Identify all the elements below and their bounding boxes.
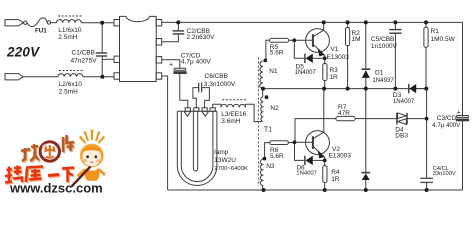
svg-text:N2: N2 bbox=[270, 105, 279, 112]
svg-text:R4: R4 bbox=[331, 169, 340, 176]
svg-text:E13003: E13003 bbox=[327, 54, 350, 61]
svg-text:3.6mH: 3.6mH bbox=[221, 118, 240, 125]
svg-text:13W2U: 13W2U bbox=[214, 157, 236, 164]
svg-text:1R: 1R bbox=[331, 176, 340, 183]
svg-text:1R: 1R bbox=[329, 74, 338, 81]
svg-text:1N4007: 1N4007 bbox=[393, 98, 415, 105]
svg-text:220V: 220V bbox=[6, 45, 40, 60]
svg-text:T1: T1 bbox=[264, 127, 272, 134]
svg-text:5.6R: 5.6R bbox=[270, 153, 284, 160]
svg-text:1M: 1M bbox=[352, 36, 361, 43]
svg-text:www.dzsc.com: www.dzsc.com bbox=[9, 181, 103, 196]
svg-text:33n100V: 33n100V bbox=[433, 171, 456, 177]
svg-text:5.6R: 5.6R bbox=[270, 50, 284, 57]
svg-text:L1/6x10: L1/6x10 bbox=[58, 27, 82, 34]
svg-text:3.3n1000V: 3.3n1000V bbox=[204, 81, 236, 88]
svg-text:47n275V: 47n275V bbox=[71, 57, 98, 64]
svg-text:R1: R1 bbox=[431, 28, 440, 35]
svg-text:2.5mH: 2.5mH bbox=[58, 34, 77, 41]
svg-text:DB3: DB3 bbox=[395, 132, 408, 139]
svg-text:FU1: FU1 bbox=[35, 28, 47, 35]
svg-text:L2/6x10: L2/6x10 bbox=[59, 81, 83, 88]
svg-text:4.7μ 400V: 4.7μ 400V bbox=[181, 59, 211, 66]
svg-text:E13003: E13003 bbox=[329, 153, 352, 160]
svg-text:1M0.5W: 1M0.5W bbox=[431, 36, 456, 43]
svg-text:+: + bbox=[457, 110, 461, 117]
svg-text:2.2n630V: 2.2n630V bbox=[187, 34, 215, 41]
svg-text:C6/CBB: C6/CBB bbox=[205, 73, 228, 80]
svg-text:1N4937: 1N4937 bbox=[372, 77, 394, 84]
svg-text:2.5mH: 2.5mH bbox=[59, 88, 78, 95]
svg-text:V1: V1 bbox=[330, 46, 338, 53]
svg-text:4.7μ 400V: 4.7μ 400V bbox=[432, 122, 461, 129]
svg-text:1N4007: 1N4007 bbox=[296, 170, 317, 176]
svg-text:N1: N1 bbox=[269, 68, 278, 75]
svg-text:N3: N3 bbox=[266, 163, 275, 170]
svg-text:1n1000V: 1n1000V bbox=[371, 43, 398, 50]
svg-text:D1: D1 bbox=[375, 70, 384, 77]
svg-text:+: + bbox=[169, 62, 173, 69]
svg-text:47R: 47R bbox=[338, 110, 350, 117]
svg-text:lamp: lamp bbox=[214, 149, 228, 156]
svg-text:C1/CBB: C1/CBB bbox=[72, 49, 95, 56]
svg-text:2700~6400K: 2700~6400K bbox=[214, 166, 248, 172]
svg-text:1N4007: 1N4007 bbox=[295, 69, 317, 76]
